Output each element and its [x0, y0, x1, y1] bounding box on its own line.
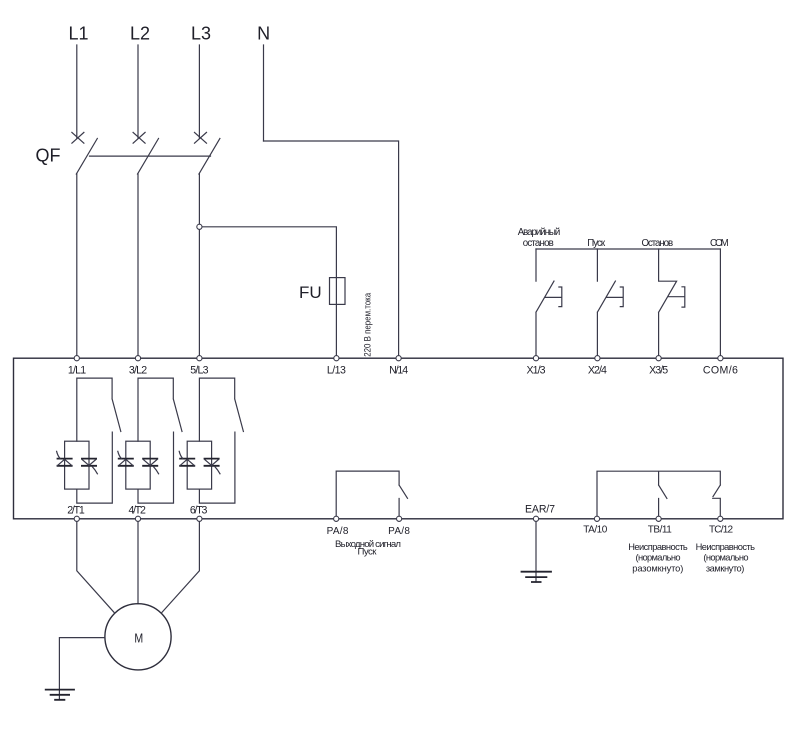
svg-text:5/L3: 5/L3 — [190, 365, 208, 377]
svg-text:4/T2: 4/T2 — [128, 505, 146, 517]
svg-text:PA/8: PA/8 — [388, 526, 410, 537]
svg-text:COM: COM — [710, 238, 729, 249]
svg-text:Аварийный: Аварийный — [518, 227, 561, 238]
svg-text:EAR/7: EAR/7 — [525, 503, 555, 515]
svg-text:TC/12: TC/12 — [709, 525, 733, 536]
svg-text:Пуск: Пуск — [587, 238, 606, 249]
svg-text:останов: останов — [523, 238, 554, 249]
svg-text:(нормально: (нормально — [636, 553, 681, 563]
svg-text:L1: L1 — [68, 24, 88, 44]
svg-text:L/13: L/13 — [327, 365, 346, 377]
svg-text:X1/3: X1/3 — [527, 365, 546, 377]
svg-text:(нормально: (нормально — [703, 553, 748, 563]
svg-text:Останов: Останов — [641, 238, 673, 249]
svg-text:COM/6: COM/6 — [703, 365, 738, 377]
svg-text:L2: L2 — [130, 24, 150, 44]
svg-text:1/L1: 1/L1 — [68, 365, 86, 377]
svg-text:M: M — [134, 631, 143, 645]
svg-text:Пуск: Пуск — [358, 547, 378, 558]
svg-text:FU: FU — [299, 283, 322, 302]
svg-text:3/L2: 3/L2 — [129, 365, 147, 377]
svg-text:L3: L3 — [191, 24, 211, 44]
svg-text:N/14: N/14 — [389, 365, 408, 377]
svg-text:6/T3: 6/T3 — [190, 505, 208, 517]
svg-text:Неисправность: Неисправность — [628, 542, 688, 552]
svg-text:2/T1: 2/T1 — [67, 505, 85, 517]
svg-text:замкнуто): замкнуто) — [706, 563, 745, 573]
svg-text:TB/11: TB/11 — [648, 525, 672, 536]
svg-text:Неисправность: Неисправность — [696, 542, 756, 552]
svg-text:QF: QF — [36, 146, 61, 166]
svg-text:разомкнуто): разомкнуто) — [632, 563, 683, 573]
svg-text:X2/4: X2/4 — [588, 365, 607, 377]
svg-text:X3/5: X3/5 — [649, 365, 668, 377]
svg-text:N: N — [257, 24, 270, 44]
svg-text:220 В перем.тока: 220 В перем.тока — [363, 292, 374, 357]
svg-text:PA/8: PA/8 — [327, 526, 349, 537]
svg-text:TA/10: TA/10 — [583, 525, 607, 536]
